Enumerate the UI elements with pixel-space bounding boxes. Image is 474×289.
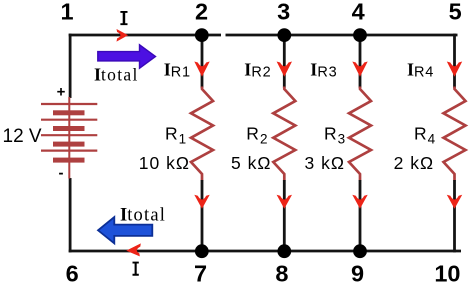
battery V1 plate line 4 [41, 150, 97, 152]
wire: branch R3 bottom (R3 to node9) [359, 180, 362, 251]
svg-text:7: 7 [194, 261, 207, 287]
svg-text:12 V: 12 V [3, 126, 42, 147]
wire: branch R4 bottom (R4 to node10) [453, 180, 456, 252]
wire: branch R4 top (node5 to R4) [453, 34, 456, 88]
current arrow IR4 (down, above R4) [447, 62, 462, 77]
svg-text:2: 2 [195, 0, 208, 24]
junction node 9 [353, 244, 367, 258]
junction node 4 [353, 28, 367, 42]
battery V1 plate line 2 [41, 119, 97, 121]
svg-text:IR4: IR4 [407, 60, 434, 81]
svg-text:3 kΩ: 3 kΩ [305, 153, 345, 173]
junction node 2 [195, 28, 209, 42]
wire: branch R2 top (node3 to R2) [283, 35, 286, 88]
svg-text:5: 5 [449, 0, 462, 24]
svg-text:1: 1 [60, 0, 73, 24]
current arrow into node 8 (down, below R2) [277, 195, 292, 209]
battery V1 thick plate 3 [53, 142, 85, 147]
svg-text:2 kΩ: 2 kΩ [394, 153, 434, 173]
svg-text:-: - [59, 165, 64, 182]
svg-text:10: 10 [434, 261, 460, 287]
junction node 8 [277, 244, 291, 258]
wire: branch R1 top (node2 to R1) [201, 35, 204, 88]
svg-text:9: 9 [351, 261, 364, 287]
svg-text:10 kΩ: 10 kΩ [139, 153, 190, 173]
svg-text:R1: R1 [165, 123, 186, 146]
current arrow IR2 (down, above R2) [277, 62, 292, 77]
resistor R2 zigzag [273, 87, 295, 181]
current arrow into node 7 (down, below R1) [194, 195, 209, 209]
svg-text:3: 3 [277, 0, 290, 24]
wire: left branch upper (node1 to battery +) [69, 34, 72, 98]
battery V1 thick plate 1 [53, 110, 85, 115]
wire: top bus segment node2-node5 [226, 34, 458, 37]
wire: left branch lower (battery - to node6) [69, 178, 72, 252]
svg-text:8: 8 [275, 261, 288, 287]
wire: branch R2 bottom (R2 to node8) [283, 180, 286, 251]
wire: top bus segment node1-node2 [69, 34, 221, 37]
svg-text:R2: R2 [246, 123, 267, 146]
current arrowhead I on bottom bus (pointing left) [126, 243, 141, 256]
svg-text:Itotal: Itotal [94, 65, 139, 85]
junction node 7 [195, 244, 209, 258]
svg-text:R4: R4 [414, 123, 436, 146]
label I (bottom bus current) [133, 262, 139, 276]
svg-text:+: + [57, 84, 66, 101]
battery V1 thick plate 4 [53, 158, 85, 163]
battery V1 thick plate 2 [53, 126, 85, 131]
battery V1 plate line 3 [41, 134, 97, 136]
current arrowhead I on top bus (pointing right) [117, 29, 129, 42]
wire: bottom bus node6-node10 [69, 250, 461, 253]
wire: branch R1 bottom (R1 to node7) [201, 180, 204, 251]
svg-text:6: 6 [66, 261, 79, 287]
svg-text:IR3: IR3 [310, 60, 337, 81]
battery V1 plate line 1 [41, 103, 97, 105]
resistor R1 zigzag [191, 87, 213, 181]
svg-text:IR1: IR1 [164, 60, 191, 81]
svg-text:Itotal: Itotal [120, 206, 166, 226]
current arrow into node 9 (down, below R3) [352, 195, 367, 209]
wire: branch R3 top (node4 to R3) [359, 35, 362, 88]
label I (top bus current) [120, 11, 127, 25]
svg-text:4: 4 [352, 0, 365, 24]
resistor R3 zigzag [349, 87, 371, 181]
svg-text:IR2: IR2 [244, 60, 271, 81]
total current arrow Itotal (big, pointing right, violet) [98, 45, 156, 68]
junction node 3 [277, 28, 291, 42]
current arrow into node 10 (down, below R4) [447, 195, 462, 209]
current arrow IR1 (down, above R1) [194, 62, 209, 77]
svg-text:5 kΩ: 5 kΩ [231, 153, 271, 173]
battery V1 center conductor [68, 97, 70, 179]
resistor R4 zigzag [444, 87, 466, 181]
svg-text:R3: R3 [324, 123, 345, 146]
total current arrow Itotal (big, pointing left, blue) [98, 217, 152, 243]
current arrow IR3 (down, above R3) [352, 62, 367, 77]
